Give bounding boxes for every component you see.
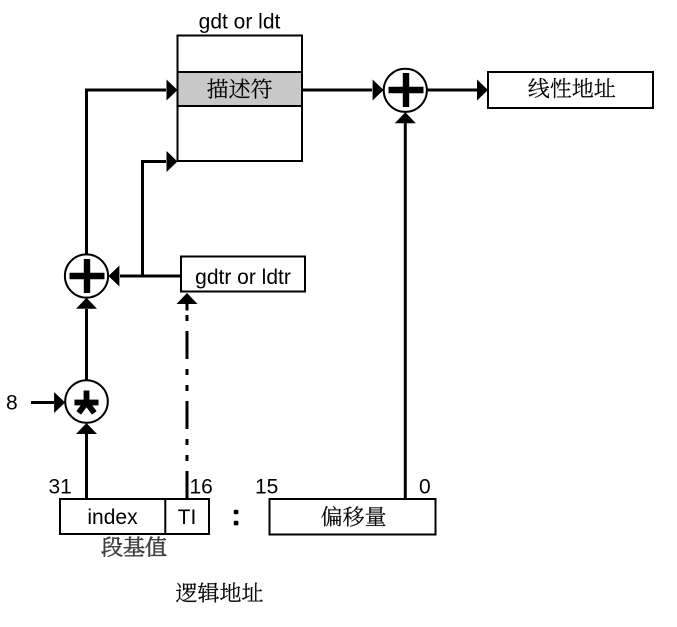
arrowhead into table (descriptor row) <box>167 80 178 101</box>
wire: adder U2 up and right to descriptor row <box>87 90 167 255</box>
arrowhead into table bottom-left <box>167 151 178 172</box>
arrowhead into adder U2 right side <box>108 266 119 287</box>
caption 逻辑地址 (logical address) <box>176 583 263 603</box>
arrowhead into linear address box <box>477 80 488 101</box>
caption 段基值 (segment base) <box>102 537 167 557</box>
svg-text:16: 16 <box>190 476 213 499</box>
arrowhead into multiplier U3 left <box>54 392 65 413</box>
arrowhead into multiplier U3 bottom <box>76 423 97 434</box>
text 线性地址 (linear address) <box>529 78 616 98</box>
wire: offset box up to adder U1 <box>404 123 407 499</box>
svg-text:0: 0 <box>419 476 431 499</box>
svg-text:8: 8 <box>6 392 18 415</box>
arrowhead into adder U1 bottom <box>395 112 416 123</box>
multiplier U3 circle <box>65 380 108 423</box>
offset box <box>270 499 436 535</box>
text 描述符 (descriptor) <box>207 79 271 99</box>
wire: 8 to multiplier U3 <box>31 401 54 404</box>
wire: descriptor row to adder U1 <box>302 89 372 92</box>
descriptor table box (gdt or ldt) <box>178 36 303 162</box>
svg-text:index: index <box>87 506 138 529</box>
svg-text:gdt or ldt: gdt or ldt <box>199 11 281 34</box>
colon separator <box>234 510 239 515</box>
arrowhead into adder U2 bottom <box>76 298 97 309</box>
wire: TI dash-dot line up to gdtr box <box>186 306 189 499</box>
multiplier U3 asterisk <box>84 391 90 403</box>
wire: branch up to table bottom <box>143 162 167 277</box>
adder U1 circle (top) <box>384 69 427 112</box>
adder U2 circle (middle left) <box>65 254 108 297</box>
svg-text:31: 31 <box>49 476 72 499</box>
selector box cell index <box>60 499 209 534</box>
svg-text:TI: TI <box>178 506 197 529</box>
arrowhead into adder U1 left <box>373 80 384 101</box>
selector cell divider <box>164 499 166 534</box>
descriptor row (gray band) <box>178 72 303 106</box>
gdtr or ldtr box <box>181 257 305 292</box>
wire: adder U1 to linear address box <box>427 89 477 92</box>
adder U1 plus sign <box>389 73 424 107</box>
wire: multiplier U3 up to adder U2 <box>85 309 88 381</box>
svg-text:15: 15 <box>255 476 278 499</box>
arrowhead into gdtr box bottom <box>177 293 198 304</box>
text 偏移量 (offset) <box>321 506 385 526</box>
wire: gdtr box left to adder U2 <box>120 275 181 278</box>
adder U2 plus sign <box>70 259 105 293</box>
wire: index cell up to multiplier U3 <box>85 434 88 499</box>
svg-text:gdtr or ldtr: gdtr or ldtr <box>195 266 291 289</box>
linear address box <box>488 72 653 108</box>
